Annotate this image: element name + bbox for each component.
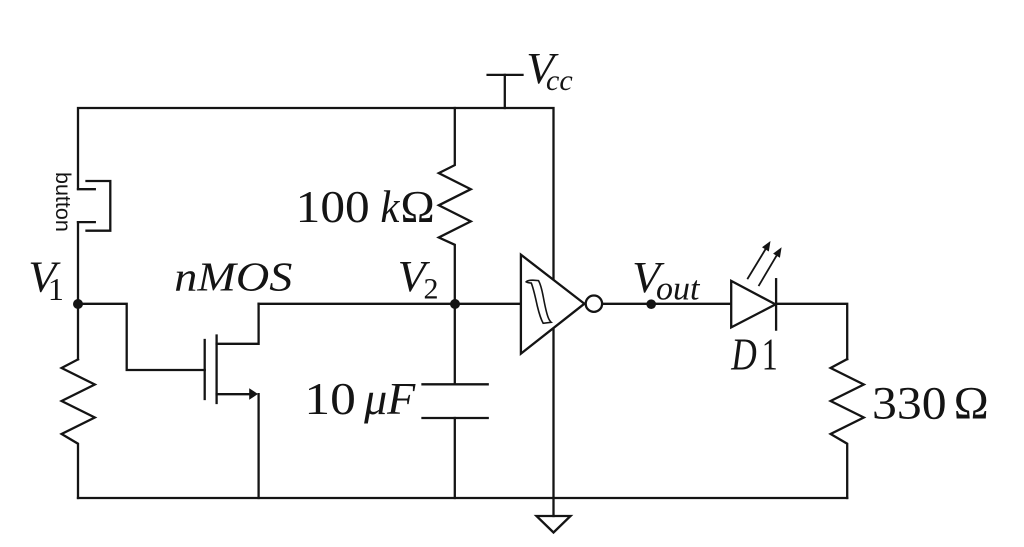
svg-text:100: 100	[296, 181, 370, 232]
svg-text:cc: cc	[546, 64, 573, 97]
svg-text:1: 1	[762, 329, 778, 379]
svg-text:out: out	[656, 271, 701, 308]
svg-text:Ω: Ω	[954, 378, 989, 430]
svg-text:nMOS: nMOS	[174, 254, 292, 300]
svg-text:button: button	[51, 172, 75, 232]
svg-text:2: 2	[424, 272, 439, 305]
svg-text:k: k	[380, 181, 400, 232]
svg-text:Ω: Ω	[401, 181, 435, 232]
svg-text:10: 10	[304, 373, 356, 424]
svg-text:D: D	[730, 329, 756, 379]
svg-text:1: 1	[48, 271, 64, 307]
svg-text:μF: μF	[363, 373, 416, 424]
svg-text:330: 330	[872, 378, 947, 430]
